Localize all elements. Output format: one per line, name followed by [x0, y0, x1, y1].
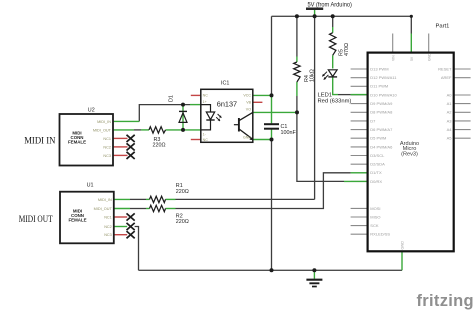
svg-text:NC: NC [203, 94, 209, 98]
svg-text:Part1: Part1 [436, 24, 450, 30]
svg-text:D4 PWM/A6: D4 PWM/A6 [370, 144, 393, 149]
svg-text:D0/RX: D0/RX [370, 179, 382, 184]
svg-text:FEMALE: FEMALE [68, 140, 86, 145]
svg-text:D11 PWM: D11 PWM [370, 84, 388, 89]
svg-text:NC2: NC2 [104, 225, 112, 229]
svg-text:VB: VB [246, 101, 251, 105]
svg-text:MIDI IN: MIDI IN [24, 136, 55, 146]
svg-text:D13 PWM: D13 PWM [370, 66, 388, 71]
svg-text:RESET: RESET [438, 66, 452, 71]
svg-text:D10 PWM/A10: D10 PWM/A10 [370, 92, 397, 97]
svg-text:RXLED/SS: RXLED/SS [370, 232, 390, 237]
svg-text:MIDI_IN: MIDI_IN [97, 120, 111, 124]
svg-text:VIN: VIN [391, 55, 395, 61]
svg-text:NC1: NC1 [104, 216, 112, 220]
svg-text:D9 PWM/A9: D9 PWM/A9 [370, 101, 393, 106]
svg-text:A3: A3 [447, 118, 453, 123]
svg-text:D7: D7 [370, 118, 376, 123]
svg-text:470Ω: 470Ω [344, 43, 350, 56]
svg-text:A0: A0 [447, 92, 453, 97]
svg-text:D5 PWM: D5 PWM [370, 136, 386, 141]
svg-text:MOSI: MOSI [370, 206, 380, 211]
svg-text:1+: 1+ [203, 100, 207, 104]
svg-text:NC1: NC1 [103, 137, 111, 141]
svg-text:D3/SCL: D3/SCL [370, 153, 385, 158]
svg-text:MIDI_IN: MIDI_IN [98, 198, 112, 202]
svg-text:MIDI_OUT: MIDI_OUT [94, 207, 113, 211]
svg-text:SCK: SCK [370, 223, 379, 228]
svg-text:VO: VO [246, 108, 251, 112]
svg-text:D1/TX: D1/TX [370, 170, 382, 175]
svg-text:D12 PWM/A11: D12 PWM/A11 [370, 75, 397, 80]
svg-text:D1: D1 [169, 95, 175, 102]
svg-text:VCC: VCC [243, 94, 251, 98]
svg-text:A1: A1 [447, 101, 453, 106]
svg-text:MIDI_OUT: MIDI_OUT [93, 128, 112, 132]
svg-text:GND: GND [243, 136, 251, 140]
svg-text:NC3: NC3 [103, 154, 111, 158]
svg-text:220Ω: 220Ω [176, 189, 189, 195]
svg-text:U2: U2 [88, 108, 95, 114]
svg-text:10kΩ: 10kΩ [310, 69, 316, 82]
svg-text:FEMALE: FEMALE [68, 218, 86, 223]
svg-text:MIDI OUT: MIDI OUT [19, 215, 53, 225]
svg-text:5V: 5V [410, 56, 414, 61]
svg-text:(Rev3): (Rev3) [401, 152, 418, 158]
svg-text:220Ω: 220Ω [153, 143, 166, 149]
svg-text:GND: GND [401, 241, 405, 250]
svg-text:fritzing: fritzing [417, 292, 474, 310]
svg-text:100nF: 100nF [281, 130, 297, 136]
svg-text:NC: NC [203, 138, 209, 142]
svg-text:NC3: NC3 [104, 233, 112, 237]
svg-text:D2/SDA: D2/SDA [370, 162, 385, 167]
svg-text:IC1: IC1 [221, 81, 229, 87]
svg-text:D6 PWM/A7: D6 PWM/A7 [370, 127, 393, 132]
svg-text:5V (from Arduino): 5V (from Arduino) [308, 2, 352, 9]
svg-text:A2: A2 [447, 110, 453, 115]
svg-text:MISO: MISO [370, 214, 380, 219]
svg-text:D8 PWM/A8: D8 PWM/A8 [370, 110, 393, 115]
svg-text:A4: A4 [447, 127, 453, 132]
svg-text:GND: GND [427, 53, 431, 61]
svg-text:6n137: 6n137 [217, 99, 237, 108]
svg-text:A5: A5 [447, 136, 453, 141]
svg-text:220Ω: 220Ω [176, 219, 189, 225]
svg-text:AREF: AREF [441, 75, 452, 80]
svg-text:Red (633nm): Red (633nm) [318, 99, 352, 105]
svg-text:NC2: NC2 [103, 145, 111, 149]
svg-text:U1: U1 [87, 183, 94, 189]
